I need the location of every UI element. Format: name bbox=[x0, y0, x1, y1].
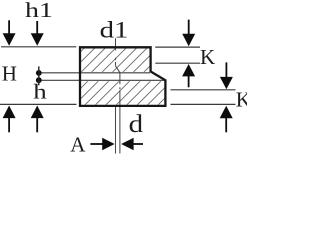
arrow down K2 bbox=[225, 62, 227, 81]
arrow up K2 bbox=[225, 112, 227, 132]
inner shoulder line B bbox=[39, 79, 165, 81]
arrow up K1 bbox=[188, 70, 190, 87]
hatch upper band bbox=[42, 44, 184, 125]
dimension line K2 top bbox=[171, 89, 236, 91]
dimension line K1 bottom bbox=[155, 62, 200, 64]
dimension line K1 top bbox=[155, 46, 200, 48]
dimension line K2 bottom bbox=[171, 103, 236, 105]
arrow down col1 (h1) bbox=[8, 20, 10, 38]
svg-text:A: A bbox=[70, 132, 86, 156]
svg-text:h: h bbox=[33, 81, 46, 104]
dimension line top face (left) bbox=[1, 46, 76, 48]
arrow down col2 (h1) bbox=[36, 21, 38, 38]
inner shoulder line A bbox=[39, 72, 150, 74]
svg-text:K: K bbox=[200, 45, 215, 69]
body outline bbox=[80, 47, 165, 106]
arrow left A bbox=[129, 143, 143, 145]
svg-text:h1: h1 bbox=[25, 0, 53, 22]
H dimension stem bbox=[38, 66, 40, 85]
centerline upper (axis d1) bbox=[116, 38, 120, 153]
arrow down K1 bbox=[188, 20, 190, 38]
arrow right A bbox=[90, 143, 106, 145]
dimension line bottom face (left) bbox=[0, 103, 77, 105]
svg-text:K: K bbox=[236, 87, 247, 111]
svg-text:H: H bbox=[2, 61, 17, 85]
centerline lower (axis d) bbox=[119, 73, 121, 154]
arrow up col2 (h) bbox=[36, 112, 38, 132]
H dimension dots bbox=[36, 70, 42, 83]
centerline upper extension below body bbox=[115, 107, 117, 154]
arrow up col1 (h) bbox=[8, 112, 10, 132]
centerline jog bbox=[116, 66, 120, 73]
svg-text:d1: d1 bbox=[100, 17, 129, 43]
svg-text:d: d bbox=[129, 110, 144, 138]
